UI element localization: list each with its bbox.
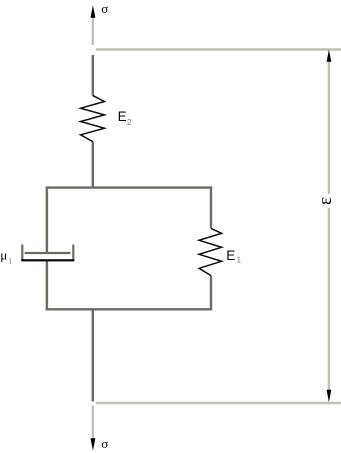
svg-text:σ: σ [101, 436, 108, 451]
svg-text:E: E [226, 248, 235, 263]
svg-text:ε: ε [315, 197, 336, 205]
svg-text:μ: μ [0, 247, 7, 262]
svg-text:2: 2 [127, 118, 132, 127]
svg-text:1: 1 [8, 257, 12, 266]
svg-text:1: 1 [237, 255, 242, 264]
svg-text:E: E [118, 109, 127, 124]
svg-text:σ: σ [101, 1, 108, 16]
